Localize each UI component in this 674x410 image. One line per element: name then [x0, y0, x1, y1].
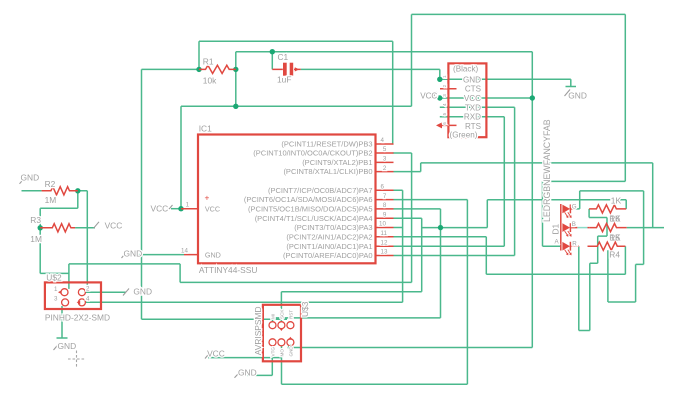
svg-text:TXD: TXD — [465, 103, 481, 112]
svg-text:2: 2 — [86, 286, 90, 293]
svg-text:10k: 10k — [203, 75, 217, 85]
svg-text:GND: GND — [21, 173, 40, 183]
svg-text:U$3: U$3 — [300, 301, 310, 317]
svg-text:(PCINT11/RESET/DW)PB3: (PCINT11/RESET/DW)PB3 — [281, 140, 372, 149]
svg-text:3: 3 — [54, 296, 58, 303]
svg-text:5: 5 — [442, 112, 447, 115]
svg-text:VCC: VCC — [105, 220, 123, 230]
svg-text:(PCINT0/AREF/ADC0)PA0: (PCINT0/AREF/ADC0)PA0 — [283, 251, 372, 260]
svg-text:R4: R4 — [609, 249, 620, 259]
svg-text:D1: D1 — [551, 223, 561, 234]
svg-text:RXD: RXD — [464, 113, 481, 122]
svg-text:4: 4 — [442, 103, 447, 106]
svg-text:(Green): (Green) — [450, 131, 478, 140]
svg-text:C1: C1 — [278, 52, 289, 62]
svg-text:3: 3 — [442, 94, 447, 97]
svg-text:MI: MI — [271, 314, 276, 319]
svg-text:2: 2 — [442, 84, 447, 87]
svg-text:(PCINT9/XTAL2)PB1: (PCINT9/XTAL2)PB1 — [302, 158, 372, 167]
svg-text:2: 2 — [383, 165, 387, 172]
svg-text:G: G — [572, 204, 577, 211]
svg-text:(PCINT6/OC1A/SDA/MOSI/ADC6)PA6: (PCINT6/OC1A/SDA/MOSI/ADC6)PA6 — [244, 195, 373, 204]
svg-text:AVRISPSMD: AVRISPSMD — [253, 306, 263, 355]
svg-text:GND: GND — [288, 346, 293, 357]
svg-text:(PCINT7/ICP/OC0B/ADC7)PA7: (PCINT7/ICP/OC0B/ADC7)PA7 — [268, 186, 372, 195]
svg-text:(PCINT3/T0/ADC3)PA3: (PCINT3/T0/ADC3)PA3 — [294, 223, 372, 232]
svg-text:8: 8 — [383, 202, 387, 209]
svg-text:GND: GND — [58, 341, 77, 351]
svg-text:1K: 1K — [610, 213, 621, 223]
svg-text:1: 1 — [54, 286, 58, 293]
svg-text:10: 10 — [379, 221, 386, 228]
svg-text:VCC: VCC — [420, 91, 437, 100]
svg-text:RTS: RTS — [465, 122, 482, 131]
svg-text:R2: R2 — [45, 179, 56, 189]
svg-text:14: 14 — [181, 248, 188, 255]
svg-text:SCK: SCK — [279, 309, 284, 319]
svg-text:RST: RST — [288, 310, 293, 319]
svg-text:VCC: VCC — [151, 203, 169, 213]
svg-text:B: B — [572, 221, 576, 228]
svg-text:U$2: U$2 — [46, 272, 62, 282]
svg-text:1K: 1K — [610, 232, 621, 242]
svg-text:LEDRGBNEWFANCYFAB: LEDRGBNEWFANCYFAB — [542, 119, 552, 222]
svg-text:13: 13 — [381, 249, 388, 256]
svg-text:GND: GND — [205, 251, 221, 260]
svg-text:1: 1 — [442, 75, 447, 78]
svg-text:CTS: CTS — [465, 85, 482, 94]
svg-text:6: 6 — [442, 122, 447, 125]
svg-text:9: 9 — [383, 211, 387, 218]
svg-text:12: 12 — [381, 239, 388, 246]
svg-text:(Black): (Black) — [453, 65, 478, 74]
svg-text:PINHD-2X2-SMD: PINHD-2X2-SMD — [45, 312, 110, 322]
svg-text:1: 1 — [186, 202, 190, 209]
svg-text:3: 3 — [383, 156, 387, 163]
svg-text:GND: GND — [238, 367, 257, 377]
svg-text:R1: R1 — [203, 56, 214, 66]
svg-text:GND: GND — [124, 248, 143, 258]
svg-text:1K: 1K — [611, 196, 622, 206]
svg-text:1uF: 1uF — [277, 75, 291, 85]
svg-text:GND: GND — [133, 287, 152, 297]
svg-text:+: + — [205, 193, 210, 203]
svg-text:5: 5 — [383, 146, 387, 153]
svg-text:GND: GND — [463, 75, 481, 84]
svg-text:ATTINY44-SSU: ATTINY44-SSU — [199, 265, 257, 275]
svg-text:VCC: VCC — [207, 349, 225, 359]
svg-text:MO: MO — [279, 349, 284, 357]
svg-text:VTG: VTG — [271, 347, 276, 357]
svg-text:GND: GND — [568, 90, 587, 100]
svg-text:(PCINT10/INT0/OC0A/CKOUT)PB2: (PCINT10/INT0/OC0A/CKOUT)PB2 — [253, 149, 372, 158]
svg-text:(PCINT8/XTAL1/CLKI)PB0: (PCINT8/XTAL1/CLKI)PB0 — [283, 167, 372, 176]
svg-text:IC1: IC1 — [199, 124, 212, 134]
svg-text:R: R — [572, 241, 577, 248]
svg-text:1M: 1M — [45, 195, 57, 205]
svg-text:(PCINT1/AIN0/ADC1)PA1: (PCINT1/AIN0/ADC1)PA1 — [286, 242, 372, 251]
svg-text:(PCINT2/AIN1/ADC2)PA2: (PCINT2/AIN1/ADC2)PA2 — [286, 232, 372, 241]
svg-text:(PCINT5/OC1B/MISO/DO/ADC5)PA5: (PCINT5/OC1B/MISO/DO/ADC5)PA5 — [248, 205, 372, 214]
svg-text:VCC: VCC — [205, 205, 220, 214]
svg-text:1M: 1M — [30, 234, 42, 244]
svg-text:(PCINT4/T1/SCL/USCK/ADC4)PA4: (PCINT4/T1/SCL/USCK/ADC4)PA4 — [255, 214, 373, 223]
svg-text:7: 7 — [383, 193, 387, 200]
svg-text:R3: R3 — [30, 215, 41, 225]
svg-text:6: 6 — [381, 184, 385, 191]
svg-text:11: 11 — [381, 230, 388, 237]
svg-text:4: 4 — [381, 137, 385, 144]
svg-text:4: 4 — [86, 296, 90, 303]
svg-text:VCC: VCC — [464, 94, 481, 103]
